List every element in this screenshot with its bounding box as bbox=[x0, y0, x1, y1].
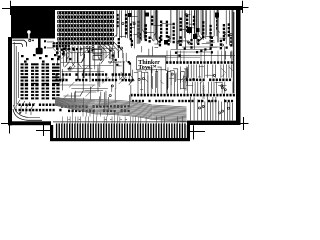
svg-text:from: from bbox=[117, 64, 122, 68]
svg-text:Toys™: Toys™ bbox=[138, 64, 156, 71]
svg-text:SPEAKEASY™: SPEAKEASY™ bbox=[108, 61, 126, 64]
svg-text:THE: THE bbox=[109, 56, 114, 60]
